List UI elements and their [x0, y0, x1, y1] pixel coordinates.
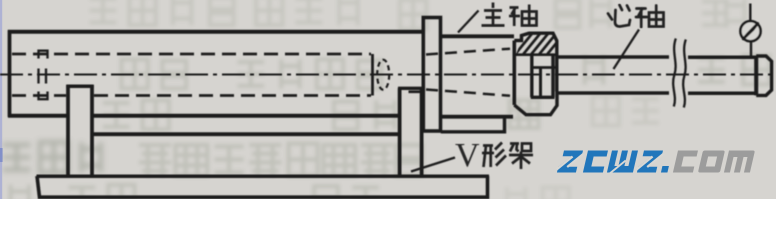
leader line to 主轴 — [458, 11, 479, 33]
cross hole bottom notch — [39, 92, 48, 100]
letter m — [724, 151, 755, 173]
letter w — [607, 151, 638, 173]
spindle body top edge — [8, 30, 424, 34]
rail bottom edge — [92, 132, 398, 136]
bore hidden line bottom — [12, 94, 66, 97]
svg-text:V: V — [455, 137, 480, 174]
spindle nose top edge — [441, 34, 515, 38]
chuck bottom outline — [514, 92, 557, 115]
letter c1 — [583, 151, 608, 173]
taper hidden line top — [426, 49, 510, 55]
flange — [423, 18, 440, 132]
bore hidden line top — [12, 53, 371, 56]
V-block left post — [66, 85, 70, 176]
white slash cuts — [556, 154, 664, 174]
dial indicator lower stem — [750, 42, 752, 58]
chuck hatching — [513, 30, 567, 57]
darker bleed cluster bottom-left — [3, 142, 101, 172]
chuck inner hex feature — [530, 56, 533, 97]
watermark zcwz.com logo — [556, 151, 755, 174]
mandrel end cap — [754, 56, 758, 95]
spindle body bottom edge (interrupted by V posts) — [8, 114, 67, 118]
nose lower band — [441, 118, 505, 132]
label 主轴 — [482, 3, 537, 27]
label 心轴 — [608, 5, 664, 27]
letter c2 — [673, 151, 698, 173]
mandrel shaft bottom edge — [557, 91, 669, 95]
dial indicator needle — [743, 23, 758, 39]
cross hole top notch — [39, 51, 48, 59]
cross hole center ticks — [37, 69, 39, 84]
base slab — [37, 174, 490, 178]
chuck nut outline — [512, 41, 516, 106]
dial indicator body — [740, 21, 760, 41]
bore end wall — [371, 54, 374, 96]
break lines — [673, 39, 676, 107]
leader line to 心轴 — [614, 30, 640, 70]
bore end hole dashed ellipse — [377, 60, 389, 90]
edge artifacts — [0, 0, 2, 199]
taper hidden line bottom — [426, 90, 510, 96]
letter z2 — [637, 151, 663, 173]
letter z1 — [557, 151, 583, 173]
spindle nose bottom edge — [441, 115, 514, 119]
centerline (axis) — [0, 74, 773, 76]
V-block right post — [398, 88, 402, 176]
dial indicator stem top — [749, 4, 751, 22]
label V形架 — [455, 137, 533, 174]
leader line to V形架 — [411, 158, 455, 172]
mandrel shaft top edge — [557, 55, 669, 59]
spindle body left edge — [8, 30, 12, 117]
dot — [661, 166, 669, 173]
letter o — [698, 151, 725, 173]
